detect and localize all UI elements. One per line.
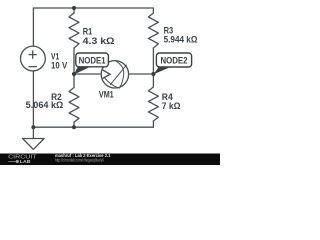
wire middle left: [74, 73, 101, 75]
svg-text:VM1: VM1: [99, 89, 114, 99]
svg-text:NODE2: NODE2: [161, 55, 188, 65]
resistor R3: [148, 8, 158, 74]
resistor R1: [69, 8, 79, 74]
wire top rail: [33, 7, 153, 9]
wire left branch upper: [32, 8, 34, 46]
svg-text:5.064 kΩ: 5.064 kΩ: [26, 100, 64, 110]
svg-text:LAB: LAB: [20, 159, 32, 164]
svg-text:NODE1: NODE1: [79, 55, 106, 65]
label R4 value: [162, 92, 181, 111]
junction dot top R1: [72, 6, 76, 10]
voltmeter VM1: [101, 61, 128, 88]
resistor R2: [69, 74, 79, 127]
junction dot node B right: [151, 72, 155, 76]
label V1 value: [51, 52, 67, 71]
ground: [23, 127, 44, 149]
node callout NODE1: [74, 53, 108, 74]
voltage source V1: [21, 46, 46, 71]
junction dot bottom left: [31, 125, 35, 129]
resistor R4: [148, 74, 158, 127]
label R1 value: [83, 27, 115, 46]
junction dot bottom R2: [72, 125, 76, 129]
junction dot node A left: [72, 72, 76, 76]
svg-text:http://circuitlab.com/c/hegeuq: http://circuitlab.com/c/hegeuq8uely6: [55, 158, 105, 163]
label R3 value: [164, 25, 198, 44]
svg-text:5.944 kΩ: 5.944 kΩ: [164, 35, 198, 45]
svg-text:10 V: 10 V: [51, 61, 67, 71]
wire bottom rail: [33, 126, 153, 128]
footer logo CircuitLab: [8, 155, 38, 165]
svg-text:7 kΩ: 7 kΩ: [162, 101, 181, 111]
label R2 value: [26, 92, 64, 110]
node callout NODE2: [154, 53, 192, 74]
svg-text:4.3 kΩ: 4.3 kΩ: [83, 36, 115, 46]
wire middle right: [129, 73, 154, 75]
footer bar: [0, 154, 220, 166]
wire left branch lower: [32, 71, 34, 127]
